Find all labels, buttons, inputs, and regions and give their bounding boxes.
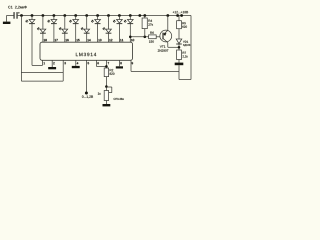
- label R3 value: [98, 92, 101, 94]
- ground pin 8: [116, 60, 123, 68]
- LED HL9: [113, 16, 122, 43]
- LED HL5: [69, 16, 78, 43]
- label C1 value: [8, 6, 27, 9]
- node dot on LED10 column: [129, 36, 132, 39]
- wire V+ rail drop to pin 3 loop: [21, 16, 63, 82]
- ground bar below R7: [175, 63, 184, 66]
- resistor R5: [177, 16, 182, 40]
- input terminal: [85, 60, 88, 94]
- label VT1 type 2N2907: [158, 49, 169, 51]
- label VD1 type: [183, 44, 190, 46]
- label VT1: [160, 45, 166, 47]
- wire right edge from rail to bottom node: [179, 16, 191, 80]
- label R7: [183, 52, 186, 54]
- junction dots on +V rail: [20, 14, 183, 17]
- node dot R4 bottom: [144, 36, 147, 39]
- capacitor C1: [7, 12, 18, 19]
- label input 0...1,2V: [82, 96, 93, 99]
- pin numbers top row: [44, 39, 134, 41]
- label R4 value: [148, 23, 153, 25]
- label R5: [182, 22, 185, 24]
- label R6: [150, 32, 154, 34]
- LED HL2: [37, 16, 46, 43]
- wire R6 to base: [156, 36, 163, 38]
- LED HL10: [124, 16, 133, 43]
- LED HL7: [91, 16, 101, 43]
- resistor R6: [149, 35, 157, 39]
- wire pin 9 to R7 bottom node: [131, 60, 179, 79]
- LED HL4: [59, 16, 68, 43]
- transistor VT1: [160, 16, 179, 48]
- wire +V top rail: [18, 15, 191, 17]
- node dot R2 bottom: [105, 85, 108, 88]
- resistor R4: [142, 16, 147, 37]
- resistor R2: [104, 68, 108, 91]
- label R3 type: [114, 98, 124, 100]
- wire pins 6-7 reference link: [96, 60, 106, 68]
- label R5 value: [182, 26, 187, 28]
- label C1 plus: [18, 12, 20, 14]
- ground under R3: [103, 101, 111, 107]
- ground under C1: [3, 16, 10, 25]
- resistor R7: [177, 50, 182, 63]
- label R7 value: [183, 55, 188, 57]
- label supply +12...+18V: [173, 11, 188, 13]
- label R2: [110, 69, 114, 71]
- LED HL6: [81, 16, 90, 43]
- LED HL3: [47, 16, 56, 43]
- label R6 value: [149, 40, 154, 42]
- label LM3914: [76, 53, 96, 56]
- ground pin 4: [72, 60, 80, 68]
- node dot R2 top: [105, 65, 108, 68]
- label VD1: [183, 41, 188, 43]
- node dot VD1-R7 junction: [178, 46, 181, 49]
- label R4: [148, 20, 152, 22]
- LED HL1: [25, 16, 35, 66]
- diode VD1: [176, 39, 182, 50]
- pin numbers bottom row: [44, 62, 133, 64]
- trimmer R3: [104, 87, 112, 101]
- LED HL8: [103, 16, 112, 43]
- label R2 value: [110, 73, 115, 75]
- wire pin 1 loop: [32, 60, 43, 65]
- IC U1 LM3914 body: [40, 42, 133, 60]
- ground pin 2: [48, 60, 56, 69]
- wire LED10 node to R4 and R6: [130, 36, 148, 38]
